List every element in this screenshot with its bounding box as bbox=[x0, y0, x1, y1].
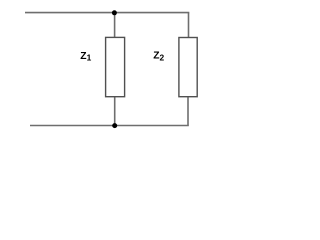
wire bottom horizontal (left terminal to bottom-right corner) bbox=[30, 125, 189, 127]
node junction dot top bbox=[112, 10, 117, 15]
impedance Z1 (rectangle body) bbox=[106, 37, 125, 96]
impedance Z2 (rectangle body) bbox=[179, 38, 197, 97]
wire Z2 branch bottom (Z2 box bottom to bottom-right corner) bbox=[187, 96, 189, 125]
wire right vertical (top corner down to Z2 top) bbox=[188, 13, 190, 38]
svg-text:Z2: Z2 bbox=[153, 51, 164, 63]
wire Z1 branch bottom (Z1 box bottom to bottom junction dot) bbox=[114, 96, 116, 125]
node junction dot bottom bbox=[112, 123, 117, 128]
wire top horizontal (left terminal to top-right corner) bbox=[25, 12, 189, 14]
wire Z1 branch top (top junction dot down to Z1 box top) bbox=[114, 13, 116, 38]
svg-text:Z1: Z1 bbox=[80, 51, 91, 63]
